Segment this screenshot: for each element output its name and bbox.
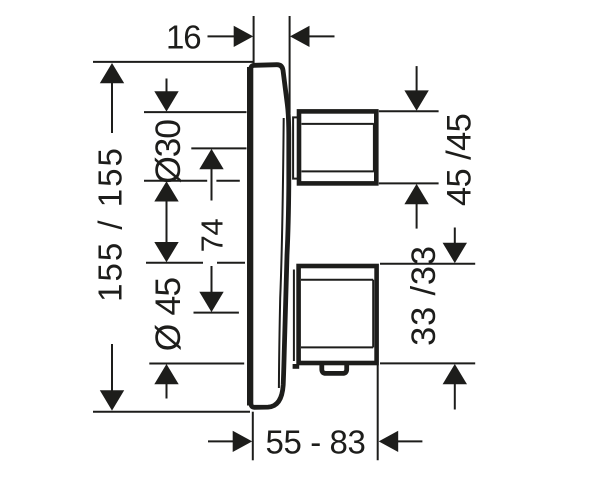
dim 33/33 label [405,245,443,346]
sleeve stub below bottom handle [293,364,300,369]
bottom handle upper extension line (33/33 top tick) [380,263,475,265]
dim 16 left extension line [253,16,255,63]
bottom handle body [299,266,377,363]
svg-text:74: 74 [195,219,230,253]
dim 74 bottom arrow [199,266,223,312]
dim 155/155 top arrow [100,63,124,133]
tick F bottom of O45 [149,363,244,365]
dim 155/155 bottom extension line [93,411,250,413]
dim 45/45 top arrow [404,66,428,111]
dim 16 left arrow [208,26,254,47]
dim 16 label [166,19,201,56]
dim O30 top arrow [154,79,178,112]
top handle upper extension line [379,110,439,112]
dim 33/33 top arrow [443,228,467,264]
dim O45 label [148,278,188,352]
dim 155/155 label [92,146,129,302]
svg-text:Ø30: Ø30 [148,120,188,184]
tick B bottom of O30 [144,180,240,182]
dim 155/155 bottom arrow [100,344,124,411]
tick D bottom of 74 top of O45 [146,262,245,264]
svg-text:Ø 45: Ø 45 [148,278,188,352]
top handle inner lines [302,124,374,171]
top handle lower extension line [379,182,439,184]
svg-text:45 /45: 45 /45 [441,114,479,206]
dim O30 label [148,120,188,184]
svg-text:16: 16 [166,19,201,56]
dim 45/45 label [441,114,479,206]
wall plate (escutcheon) outline [251,65,289,408]
dim O30 bottom / O45 top double arrow [154,181,178,262]
bottom handle neck [293,270,295,362]
dim 16 right extension line [289,16,291,113]
dim 55-83 right arrow [379,431,423,452]
dim 74 label [195,219,230,253]
svg-text:55 - 83: 55 - 83 [266,424,366,461]
top handle body [299,111,376,183]
plate front edge line [279,118,284,388]
tick A top of O30 [144,111,247,113]
dim O45 bottom arrow [154,364,178,399]
svg-text:33 /33: 33 /33 [405,245,443,346]
top handle neck [293,117,297,178]
bottom handle inner lines [301,280,373,348]
dim 55-83 left extension line [252,412,254,461]
dim 16 right arrow [290,26,335,47]
svg-text:155 / 155: 155 / 155 [92,146,129,302]
tick E bottom tick of 74 [194,312,239,314]
tick C top of 74 [191,147,246,149]
dim 55-83 left arrow [208,431,252,452]
dim 55-83 label [266,424,366,461]
dim 155/155 top extension line [93,61,253,63]
dim 33/33 bottom arrow [443,364,467,410]
bottom handle lower extension line (33/33 bottom tick) [380,362,475,364]
dim 74 top arrow [199,149,223,201]
safety stop tab below bottom handle [322,364,347,374]
dim 55-83 right extension line [377,365,379,460]
dim 45/45 bottom arrow [404,184,428,229]
plate left edge reinforcing line [247,67,250,406]
